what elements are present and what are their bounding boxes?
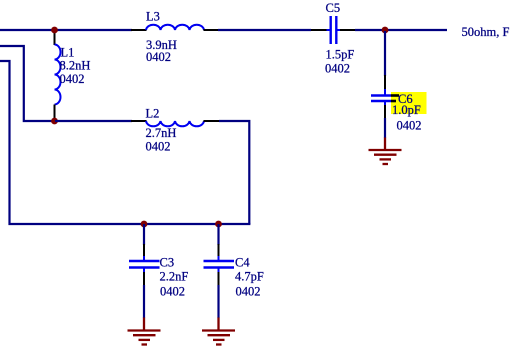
svg-text:0402: 0402 — [60, 72, 85, 86]
capacitor C4 — [204, 244, 264, 299]
node: junction dot top of L1 — [51, 27, 58, 34]
svg-text:L2: L2 — [146, 107, 160, 121]
ground for C4 — [202, 318, 235, 345]
svg-text:0402: 0402 — [236, 285, 261, 299]
inductor L2 — [131, 107, 220, 154]
wire top rail middle segment — [218, 29, 311, 31]
capacitor C5 — [311, 1, 355, 76]
svg-text:1.5pF: 1.5pF — [326, 47, 355, 61]
svg-text:C4: C4 — [235, 256, 250, 270]
inductor L3 — [131, 10, 218, 65]
wire stub3 from left edge, left vertical and bottom rail — [0, 61, 250, 224]
wire second rail left segment — [55, 120, 132, 122]
capacitor C6 — [371, 75, 422, 132]
wire C6 branch lower — [384, 118, 386, 138]
wire stub2 from left edge with corner down to second rail — [0, 46, 55, 121]
svg-text:0402: 0402 — [146, 140, 171, 154]
yellow highlight on C6 labels — [391, 92, 427, 114]
svg-text:50ohm, F: 50ohm, F — [462, 25, 510, 39]
ground for C6 — [369, 138, 402, 165]
wire C4 branch lower — [217, 285, 219, 318]
inductor L1 — [55, 31, 91, 120]
wire C3 branch upper — [143, 224, 145, 245]
capacitor C3 — [129, 244, 188, 299]
svg-text:8.2nH: 8.2nH — [60, 59, 91, 73]
wire top rail left segment — [0, 29, 132, 31]
svg-text:0402: 0402 — [160, 285, 185, 299]
svg-text:2.7nH: 2.7nH — [146, 126, 177, 140]
ground for C3 — [128, 318, 161, 345]
svg-text:0402: 0402 — [397, 118, 422, 132]
svg-text:L1: L1 — [61, 45, 75, 59]
node: junction dot at C3 — [141, 221, 148, 228]
svg-text:1.0pF: 1.0pF — [392, 103, 421, 117]
svg-text:C3: C3 — [160, 256, 175, 270]
wire second rail right segment with corner down to bottom rail — [219, 121, 249, 224]
node: junction dot bottom of L1 — [51, 118, 58, 125]
svg-text:2.2nF: 2.2nF — [160, 270, 189, 284]
svg-text:L3: L3 — [146, 10, 160, 24]
node: junction dot at C5/C6 — [382, 27, 389, 34]
svg-text:0402: 0402 — [146, 50, 171, 64]
wire C3 branch lower — [143, 285, 145, 318]
wire C4 branch upper — [217, 224, 219, 245]
svg-text:4.7pF: 4.7pF — [235, 270, 264, 284]
node: junction dot at C4 — [215, 221, 222, 228]
wire top rail right segment — [355, 29, 447, 31]
svg-text:C5: C5 — [326, 1, 341, 15]
wire C6 branch upper — [384, 31, 386, 76]
svg-text:0402: 0402 — [325, 62, 350, 76]
